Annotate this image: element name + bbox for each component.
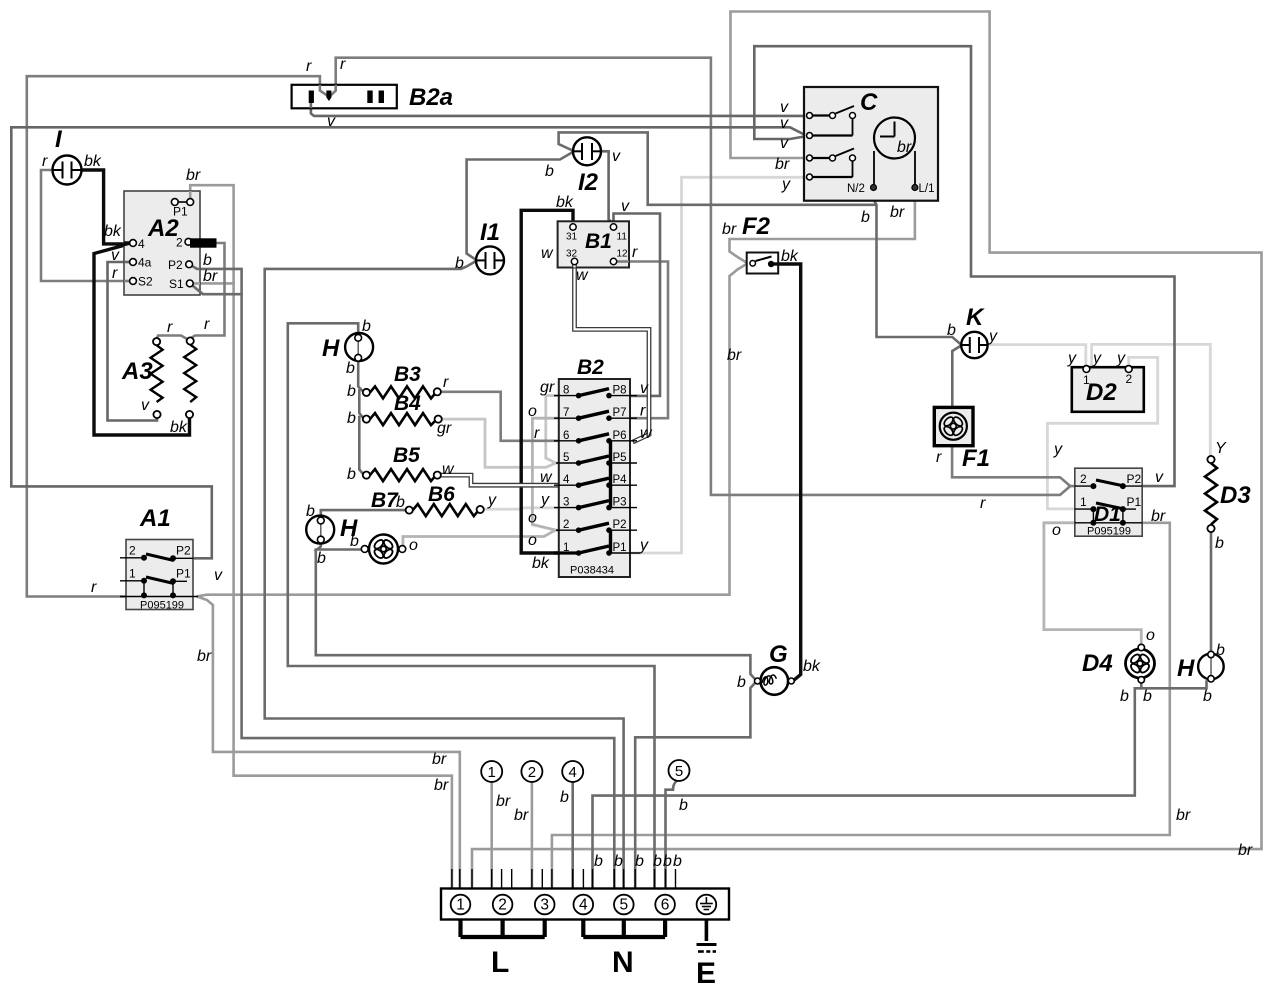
svg-text:S2: S2 [138,275,153,289]
svg-text:bk: bk [556,194,574,211]
svg-text:y: y [487,492,497,509]
svg-text:v: v [640,380,649,397]
wire gr B2.row8 to row5 crimp [546,396,559,463]
svg-text:r: r [936,449,942,466]
connector B2a [292,84,453,111]
svg-text:H: H [322,335,340,362]
svg-text:P7: P7 [613,407,627,419]
svg-text:b: b [1215,535,1224,552]
svg-text:D3: D3 [1220,482,1251,509]
svg-text:P1: P1 [176,567,191,581]
svg-text:br: br [727,347,742,364]
svg-text:1: 1 [1080,495,1087,509]
svg-text:6: 6 [563,430,569,442]
svg-text:br: br [1176,807,1191,824]
svg-text:v: v [1155,469,1164,486]
svg-text:bk: bk [532,555,550,572]
svg-text:6: 6 [661,897,670,914]
svg-text:12: 12 [617,249,629,260]
svg-text:w: w [541,245,554,262]
svg-text:b: b [350,533,359,550]
svg-text:B3: B3 [394,363,421,386]
resistor B3 [347,363,449,400]
wire o B2.row7 to row2 crimp [532,418,558,530]
svg-text:F1: F1 [962,445,990,472]
wire b D4.bottom to terminal4-right [593,688,1142,888]
svg-text:32: 32 [566,249,578,260]
svg-text:L: L [491,946,509,979]
svg-text:b: b [653,853,662,870]
svg-text:b: b [679,797,688,814]
svg-text:y: y [1092,350,1102,367]
svg-text:31: 31 [566,232,578,243]
svg-text:v: v [780,115,789,132]
svg-text:b: b [455,255,464,272]
svg-text:r: r [42,153,48,170]
svg-text:K: K [966,304,985,331]
svg-text:r: r [340,56,346,73]
svg-text:b: b [203,252,212,269]
svg-text:P8: P8 [613,385,627,397]
svg-text:v: v [621,198,630,215]
resistor A3 [121,316,210,436]
svg-text:y: y [988,328,998,345]
wire b I1 to terminal5 [265,261,624,889]
svg-text:b: b [347,466,356,483]
svg-text:7: 7 [563,407,569,419]
svg-text:B1: B1 [585,230,612,253]
lamp H upper [322,318,373,377]
svg-text:B7: B7 [371,489,399,512]
wire br A1.crimp down to terminal1-right [198,597,460,889]
motor B7 [350,489,418,564]
wire bk F2 to G.right [771,264,801,681]
svg-text:v: v [612,148,621,165]
wire o B7 to B2.row2 crimp [403,530,579,545]
wire v A1.P2 to C.v2 crimp [11,127,804,558]
svg-text:b: b [861,209,870,226]
wire y B6 to B2.row3 [484,508,579,509]
svg-text:br: br [434,777,449,794]
wire b H-lower.top to B6.left [321,510,406,517]
svg-text:2: 2 [563,519,569,531]
svg-text:v: v [780,135,789,152]
wire b I2 crimp down branch to I1 crimp [467,152,573,260]
svg-text:b: b [737,674,746,691]
svg-text:1: 1 [1083,373,1090,387]
svg-text:8: 8 [563,385,569,397]
svg-text:b: b [362,318,371,335]
suppressor K [947,304,998,358]
svg-text:w: w [442,461,455,478]
svg-text:3: 3 [540,897,549,914]
svg-text:br: br [1238,842,1253,859]
svg-text:11: 11 [617,232,628,243]
svg-text:r: r [534,425,540,442]
svg-text:F2: F2 [742,213,771,240]
svg-text:br: br [1151,508,1166,525]
wire b D3.bottom to H.top [1210,532,1213,650]
svg-text:br: br [203,268,218,285]
wire b A2.P2 to terminal5-left [189,264,614,888]
svg-text:o: o [528,532,537,549]
svg-text:2: 2 [1080,472,1087,486]
resistor B6 [396,483,497,516]
svg-text:A1: A1 [139,505,171,532]
resistor D3 [1205,440,1251,552]
svg-text:N: N [612,946,634,979]
wire v I2 to B1.11 [601,151,614,223]
heater D2 [1067,350,1144,412]
svg-text:P095199: P095199 [140,600,184,612]
svg-text:y: y [1053,441,1063,458]
wire b A2.S1 lower join [190,283,242,294]
svg-text:C: C [860,89,878,116]
svg-text:b: b [347,383,356,400]
svg-text:b: b [347,410,356,427]
svg-text:b: b [635,853,644,870]
svg-text:b: b [306,503,315,520]
svg-text:bk: bk [104,223,122,240]
svg-text:o: o [528,403,537,420]
L bracket [461,920,545,938]
svg-text:br: br [514,807,529,824]
svg-text:P038434: P038434 [570,565,614,577]
svg-text:B4: B4 [394,392,421,415]
wire r B2a.pin2 to D1.row2 crimp [330,58,1069,495]
svg-text:b: b [1203,688,1212,705]
svg-text:br: br [186,167,201,184]
svg-text:P1: P1 [613,542,627,554]
svg-text:bk: bk [781,248,799,265]
programmer B2 [559,356,630,577]
svg-text:o: o [1052,522,1061,539]
wire br D1.bottom-right to terminal3-right [552,523,1170,889]
fan D4 [1082,627,1155,705]
wire o D1.bottom-left to D4.top [1044,523,1141,645]
switch D1 [980,441,1166,539]
svg-text:y: y [1067,350,1077,367]
lamp H right [1177,642,1225,705]
svg-text:G: G [769,641,788,668]
svg-text:r: r [91,579,97,596]
wire y D2.1 to D3.top [1092,344,1211,456]
svg-text:b: b [614,853,623,870]
svg-text:y: y [540,492,550,509]
svg-text:gr: gr [540,379,555,396]
N bracket [583,920,665,938]
wire b N/2 to K crimp [874,191,962,345]
svg-text:bk: bk [803,658,821,675]
svg-text:r: r [632,244,638,261]
svg-text:gr: gr [437,420,452,437]
svg-text:bk: bk [170,419,188,436]
svg-text:b: b [594,853,603,870]
svg-text:P2: P2 [176,544,191,558]
wire r B2a.pin1 left loop to A1 bottom row [27,76,329,596]
wire w B1.32 to B2.P6 double line [575,265,650,442]
svg-text:D2: D2 [1086,379,1117,406]
wire b K to F1 [952,346,961,408]
svg-text:y: y [781,176,791,193]
svg-text:b: b [673,853,682,870]
suppressor I1 [455,219,504,274]
svg-text:S1: S1 [169,277,184,291]
wire b D4.bottom to H.bottom [1141,682,1206,689]
wire b H-lower.bottom to G crimp branch1 [316,550,756,681]
svg-text:b: b [317,550,326,567]
wire y K to D2.1 [987,345,1086,366]
svg-text:5: 5 [563,452,569,464]
svg-text:b: b [545,163,554,180]
wire br conn1 to block [490,782,493,889]
switch F2 [722,213,799,364]
svg-text:r: r [112,265,118,282]
svg-text:P2: P2 [613,519,627,531]
wire gr B4 to row5 crimp [442,419,579,467]
svg-text:r: r [306,58,312,75]
wire r B1.12 to B2.P7 [609,262,668,419]
svg-text:4: 4 [579,897,588,914]
svg-text:P095199: P095199 [1087,526,1131,538]
svg-text:B2a: B2a [409,84,453,111]
resistor B4 [347,392,452,437]
svg-text:r: r [167,319,173,336]
earth E symbol [697,920,717,952]
wire br A1.crimp to F2 [198,264,747,596]
wire r B3 to B2.row6 [441,392,579,441]
lamp G [737,641,821,695]
svg-text:P2: P2 [168,258,183,272]
wire v B1.11 to B2.P8 [609,214,660,396]
wire v B2a.v to C.v1 [311,103,807,116]
svg-text:D4: D4 [1082,650,1113,677]
wire b H-lower.bottom to B7.left [317,543,361,550]
wire r I.left to A2.S2 [41,170,130,281]
terminal block [441,869,729,990]
wire w B5 to B2.row4 double line [441,475,579,485]
svg-text:2: 2 [498,897,507,914]
svg-text:L/1: L/1 [919,183,935,195]
node 2 connector circle [514,761,542,824]
svg-text:b: b [1216,642,1225,659]
wire bk A3.right.bottom to A2.4 crimp [94,244,190,435]
svg-text:v: v [780,99,789,116]
svg-text:2: 2 [129,544,136,558]
suppressor I2 [545,137,621,196]
wire b conn4 to block [571,782,574,889]
wire v A3.left.bottom to A2.4a [108,262,158,421]
timer C [775,87,938,226]
wire r A2.pin2 to A3.right.top [157,243,225,339]
suppressor I [42,126,102,185]
wire bk I to A2.4 crimp [81,170,128,244]
svg-text:br: br [890,204,905,221]
svg-text:r: r [640,403,646,420]
svg-text:y: y [639,537,649,554]
B2 rows [554,389,640,553]
svg-text:br: br [496,793,511,810]
svg-text:B2: B2 [577,356,604,379]
relay A2 [104,167,218,295]
svg-text:D1: D1 [1094,503,1121,526]
resistor B5 [347,444,455,483]
wire b conn5 to block [666,780,679,889]
svg-text:B5: B5 [393,444,420,467]
wire br A2.P1+S1 to terminal1-left [190,185,452,888]
svg-text:o: o [528,510,537,527]
wire b H-upper chain to B3 B4 B5 [358,362,364,476]
svg-text:P1: P1 [173,205,188,219]
svg-text:2: 2 [528,764,536,781]
svg-text:H: H [1177,655,1195,682]
svg-text:4: 4 [138,237,145,251]
lamp H lower [306,503,358,567]
svg-text:v: v [327,113,336,130]
svg-text:r: r [443,374,449,391]
svg-text:P2: P2 [1127,472,1142,486]
wire r F1 to D1.row2 crimp [952,446,1075,486]
node 1 connector circle [481,761,511,810]
svg-text:r: r [204,316,210,333]
svg-text:4: 4 [563,474,570,486]
svg-text:Y: Y [1215,440,1227,457]
svg-text:w: w [540,469,553,486]
svg-text:b: b [560,789,569,806]
svg-text:E: E [696,957,716,990]
svg-text:A2: A2 [147,215,179,242]
svg-text:b: b [1120,688,1129,705]
svg-text:A3: A3 [121,358,153,385]
svg-text:v: v [141,397,150,414]
svg-text:y: y [1116,350,1126,367]
svg-text:w: w [576,267,589,284]
svg-text:4a: 4a [138,256,152,270]
wire v C.v2 crimp to D1.P2 [754,46,1174,486]
svg-text:3: 3 [563,497,569,509]
svg-text:1: 1 [456,897,465,914]
svg-text:v: v [111,247,120,264]
wire b H-upper.top to terminal6-left [288,323,655,888]
wire bk B1.31 to B2.row1 [521,210,578,553]
svg-text:P4: P4 [613,474,628,486]
svg-text:o: o [1146,627,1155,644]
node 5 connector circle [669,760,690,814]
svg-text:I1: I1 [480,219,500,246]
svg-text:1: 1 [563,542,569,554]
svg-text:P5: P5 [613,452,627,464]
wire br conn2 to block [531,782,534,889]
node 4 connector circle [560,761,583,806]
svg-text:1: 1 [129,567,136,581]
wire b G crimp branch2 to terminal5-right [635,682,756,889]
wire br A2.S1 join [193,282,233,285]
svg-text:P1: P1 [1127,495,1142,509]
svg-text:r: r [980,495,986,512]
wire y C.y to B2.P1 [609,177,807,553]
svg-text:b: b [663,853,672,870]
svg-text:br: br [775,156,790,173]
wire y D2.2 to D1.1 [1047,357,1157,509]
svg-text:P3: P3 [613,497,627,509]
svg-text:w: w [640,425,653,442]
svg-text:br: br [897,139,912,156]
svg-text:br: br [197,648,212,665]
wire br C.br to terminal2 (right edge loop) [472,12,1262,889]
svg-text:5: 5 [675,763,683,780]
svg-text:1: 1 [488,764,496,781]
wire br L/1 to F2 [730,191,915,263]
svg-text:P6: P6 [613,430,627,442]
fan F1 [934,407,990,472]
svg-text:b: b [1143,688,1152,705]
switch A1 [91,505,223,612]
svg-text:I2: I2 [578,169,599,196]
svg-text:2: 2 [176,236,183,250]
svg-text:bk: bk [84,153,102,170]
ground terminal symbol [700,897,713,910]
svg-text:5: 5 [619,897,628,914]
svg-text:o: o [409,537,418,554]
wire b I2 crimp up branch to N/2 [559,132,876,204]
svg-text:b: b [346,360,355,377]
svg-text:b: b [947,322,956,339]
module B1 [541,194,638,284]
svg-text:B6: B6 [428,483,455,506]
svg-text:4: 4 [569,764,577,781]
svg-text:br: br [432,751,447,768]
svg-text:br: br [722,221,737,238]
svg-text:v: v [214,567,223,584]
svg-text:2: 2 [1126,372,1133,386]
svg-text:N/2: N/2 [847,183,865,195]
